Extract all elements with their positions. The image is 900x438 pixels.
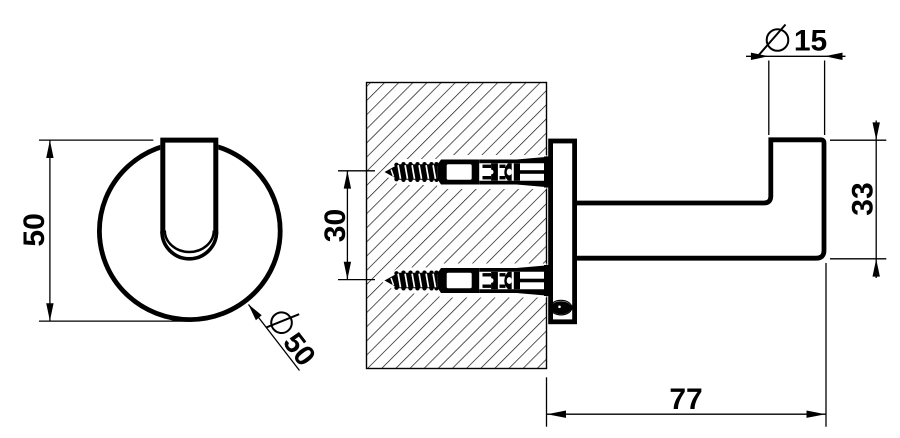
Ø15 arrow left (outside, pointing right) [751, 53, 769, 60]
dimension 50 arrow up [46, 140, 53, 158]
dimension 50 bottom extension line [39, 320, 188, 322]
dimension 33 bottom extension line [830, 258, 886, 260]
dimension 30 top extension line [338, 170, 375, 172]
hook tip outer arc (front) [162, 232, 217, 259]
77 arrow right [807, 411, 826, 418]
dimension 50 top extension line [39, 139, 153, 141]
dimension 30 arrow up [344, 171, 351, 189]
svg-text:30: 30 [319, 209, 352, 242]
dimension 33 top extension line [830, 139, 886, 141]
wall mounting plate [551, 141, 575, 322]
33 arrow top (outside, pointing down) [873, 122, 880, 140]
svg-text:50: 50 [18, 213, 51, 246]
svg-text:50: 50 [276, 327, 321, 372]
label Ø50 (rotated 52deg) [260, 303, 326, 372]
hook tip inner arc (front) [165, 231, 214, 253]
Ø symbol for 15 [767, 29, 789, 51]
leader line for Ø50 [249, 305, 300, 371]
hook profile (arm + upturned tip) [575, 140, 824, 258]
dimension 30 bottom extension line [338, 279, 375, 281]
dimension Ø15 left extension line [768, 61, 770, 136]
dimension 77 line [547, 413, 827, 415]
77 arrow left [547, 411, 566, 418]
dimension 50 arrow down [46, 303, 53, 321]
Ø15 arrow right (outside, pointing left) [825, 53, 843, 60]
rosette circle Ø50 [99, 142, 280, 319]
screw and anchor (top) [381, 155, 552, 189]
dimension 77 left extension line [546, 377, 548, 426]
hook bar front outline (thick) [163, 140, 216, 233]
dimension 33 line [875, 121, 877, 279]
dimension 30 line [346, 171, 348, 280]
dimension 77 right extension line [825, 263, 827, 427]
dimension 30 arrow down [344, 262, 351, 280]
screw and anchor (bottom) [381, 264, 552, 298]
svg-text:33: 33 [846, 182, 879, 215]
grub screw [550, 300, 572, 315]
leader arrowhead on circle [248, 304, 261, 320]
dimension 50 line [49, 140, 51, 321]
33 arrow bottom (outside, pointing up) [873, 259, 880, 277]
dimension Ø15 right extension line [824, 61, 826, 136]
dimension Ø15 line [746, 55, 846, 57]
hook bar front view (white fill body) [160, 138, 218, 261]
svg-text:15: 15 [794, 25, 827, 58]
svg-text:77: 77 [669, 383, 702, 416]
wall section with hatching [367, 83, 547, 369]
